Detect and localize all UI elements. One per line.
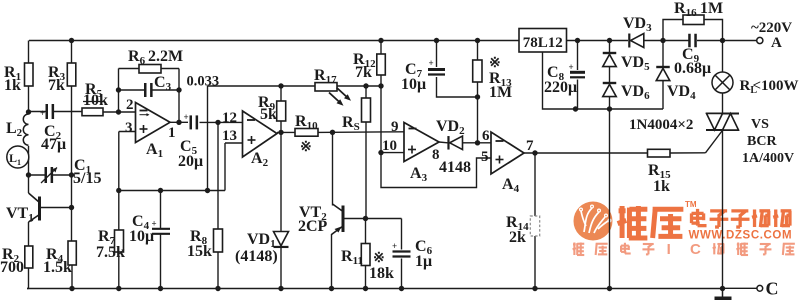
diode VD3 [631,34,644,48]
regulator 78L12 [519,29,567,53]
svg-text:6: 6 [482,128,490,144]
junction VT1 base/R4 [69,205,74,210]
resistor R16 [683,15,704,25]
capacitor C7 [428,68,445,71]
wire A1 feedback left riser [118,69,120,113]
svg-text:7: 7 [526,138,534,154]
svg-text:1k: 1k [653,178,670,195]
wire VD2 to A4 pin6 [463,142,492,144]
wire R4 bottom to ground rail [71,265,73,289]
junction top rail R13 [475,38,480,43]
diode VD6 [603,82,617,84]
svg-text:5: 5 [481,149,489,165]
svg-text:12: 12 [222,110,237,126]
wire C6 bottom to ground [401,259,403,289]
junction R12/R17 [378,83,383,88]
wire R3 column top [71,41,73,64]
junction A2 output/R9/VD1 [278,130,283,135]
wire R1 bottom to mic node [28,86,30,114]
svg-text:18k: 18k [369,265,394,282]
junction C1 right [69,172,74,177]
wire Rs top stub [365,86,367,98]
wire bottom ground rail [27,288,723,290]
wire bias line (half supply) [119,190,225,192]
capacitor C3 [144,83,147,97]
svg-text:+: + [392,241,397,251]
wire R12 column [380,41,382,55]
svg-text:A: A [771,35,782,51]
svg-text:3: 3 [125,120,133,136]
wire R3 bottom through C2 line down to C1 node [71,86,73,175]
svg-text:15k: 15k [187,243,212,260]
svg-text:7k: 7k [355,64,372,81]
resistor R8 [214,229,223,252]
junction ground rail R8 [215,286,220,291]
svg-text:※: ※ [489,56,501,71]
capacitor C8 [570,71,585,74]
svg-text:BCR: BCR [747,134,777,149]
wire A1 output to C5 [170,121,188,123]
junction A4 output/R14 [532,150,537,155]
resistor R6 [139,65,161,74]
svg-text:+: + [40,108,45,118]
wire VT2 base line [344,218,402,220]
transistor VT1 [38,197,41,221]
svg-text:C: C [690,241,701,258]
junction C1 left [26,172,31,177]
junction mic/C2/R1 [26,109,31,114]
wire R10 to A3 pin9 line [318,131,404,134]
wire R15 to triac gate [670,152,706,154]
junction bias 0.033 [205,188,210,193]
op-amp A4 [491,132,524,174]
junction ground rail C4 [158,286,163,291]
junction ground rail VD1 [278,286,283,291]
junction top rail C8 [575,38,580,43]
wire VD5 column top [609,41,611,54]
wire R14 column [534,153,536,216]
svg-text:~220V: ~220V [751,20,792,36]
wire C2 to R5 (crosses R3 column) [54,111,83,113]
diode VD4 [656,66,670,68]
svg-text:1k: 1k [4,77,21,94]
terminal C [757,285,763,291]
op-amp A2 [243,111,278,157]
wire bottom rail to terminal C [723,287,757,289]
wire VT2 emitter to ground [331,234,333,289]
wire C1-node down to R4 top [71,175,73,241]
capacitor C6 [393,250,411,252]
photoresistor light arrows [329,93,341,104]
op-amp A3 [404,123,439,162]
svg-text:20μ: 20μ [178,153,203,170]
resistor R15 [648,149,671,157]
wire VD6 bottom [609,97,611,110]
wire A4 output line to R15 [524,152,648,154]
junction top rail VD3/R16 [660,38,665,43]
wire R5 to A1 pin2 [103,111,136,113]
junction A1 output [176,120,181,125]
resistor R11 [361,244,370,266]
junction R13 bottom/C7 [475,94,480,99]
svg-text:+: + [429,58,434,68]
svg-text:+: + [569,62,574,72]
junction ground rail VT2 emitter [329,286,334,291]
triac VS [706,113,739,115]
svg-text:1: 1 [168,125,176,141]
junction C3 right [176,87,181,92]
wire ground link to VD4 [610,108,664,110]
svg-text:I: I [667,241,671,258]
diode VD1 [274,232,289,246]
junction ground rail C6 [399,286,404,291]
wire 0.033 feedback riser [207,86,209,191]
diode VD5 [603,52,617,54]
ground symbol [722,289,724,298]
wire lamp column [722,41,724,73]
wire VD4 top [662,41,664,68]
transistor VT2 [342,206,345,233]
resistor R14 (dashed) [530,216,539,236]
junction top rail C7 [434,38,439,43]
svg-text:7k: 7k [48,77,65,94]
resistor R3 [67,63,76,86]
wire lamp to triac [722,93,724,114]
svg-text:10: 10 [382,138,397,154]
wire A3 output to VD2 [439,141,448,144]
svg-text:2k: 2k [509,229,526,246]
lamp RL [712,72,733,93]
junction R12 bottom/A3 pin10 [378,150,383,155]
wire mic column through L1 to C1 node [28,146,30,175]
resistor R5 [82,108,103,116]
resistor R4 [68,241,76,265]
svg-text:2: 2 [126,97,134,113]
svg-text:1.5k: 1.5k [43,259,72,276]
wire R7 column [118,191,120,231]
svg-text:5k: 5k [260,106,277,123]
junction top rail R12 [378,38,383,43]
microphone L1 [7,146,29,168]
wire R11 column [365,219,367,244]
resistor R13 [473,60,482,82]
svg-text:(4148): (4148) [235,248,278,265]
junction A2 pin12/R8 [215,120,220,125]
wire A3 pin10 line [381,152,404,154]
svg-text:TM: TM [685,200,697,209]
resistor R7 [115,230,124,252]
wire R16 branch [663,20,683,41]
svg-text:0.033: 0.033 [187,74,220,90]
svg-text:10μ: 10μ [401,76,426,93]
wire VD1 column [280,132,282,231]
terminal A ~220V [757,37,763,43]
wire top +V rail [29,40,519,42]
svg-text:1M: 1M [700,0,723,17]
wire 78L12 ground pin [543,52,576,109]
resistor R10 [295,129,318,137]
junction ground rail R11 [363,286,368,291]
resistor R12 [377,54,386,75]
junction Rs top [363,83,368,88]
svg-text:+: + [184,112,189,122]
resistor R1 [25,63,34,86]
svg-text:10k: 10k [83,92,108,109]
svg-text:※: ※ [373,251,385,266]
svg-text:+: + [152,219,157,229]
wire C5 to A2 pin12 [200,121,243,123]
junction R9 top [278,83,283,88]
svg-text:※: ※ [300,140,312,155]
junction bias C4 [158,188,163,193]
junction VD2 output/A4 pin6 [475,140,480,145]
svg-text:9: 9 [391,119,399,135]
wire A1 pin3 to bias line [119,131,136,133]
resistor R2 [25,246,33,268]
junction ground rail VD6 column [607,286,612,291]
svg-text:78L12: 78L12 [523,35,563,51]
capacitor C5 [190,115,193,129]
watermark dzsc.com logo and text [574,202,613,241]
wire R13 node down to VD2 output node [477,97,479,143]
op-amp A1 [136,103,171,143]
svg-text:<100W: <100W [753,78,799,94]
svg-text:47μ: 47μ [41,136,66,153]
wire C8 ground link to VD5/VD6 column [576,108,610,110]
wire R8 column [217,122,219,229]
svg-text:10μ: 10μ [129,228,154,245]
wire 0.033 top line to R9 node [208,85,282,87]
wire C3 loop [119,89,145,91]
junction top rail VD5 [607,38,612,43]
svg-text:0.68μ: 0.68μ [674,60,711,77]
inductor L2 coil [23,114,28,145]
wire VT1 base line [41,207,72,209]
wire C1 to R4 column [53,174,72,176]
junction ground rail R7 [116,286,121,291]
wire triac to ground rail [722,130,724,289]
junction VT2 base/Rs/R11 [363,216,368,221]
wire R9 top line to R17 [281,85,315,87]
wire C7 bottom link to R13 [437,77,478,97]
diode VD2 [450,136,463,150]
junction ground rail R14 [532,286,537,291]
wire VD5/VD6 ground column [609,109,611,289]
svg-text:1μ: 1μ [415,253,432,270]
wire C1 node to C1 plates [29,174,46,176]
capacitor C2 [46,104,49,119]
wire C8 column [577,41,579,71]
wire Rs bottom to VT2 base node (crosses pin9 line) [365,122,367,219]
wire bias riser to A2 pin13 [224,143,226,191]
junction ground rail triac [720,286,725,291]
wire VT2 collector riser [332,132,334,205]
svg-text:7.5k: 7.5k [96,244,125,261]
wire A2 output line [277,131,295,133]
wire R1 column [28,41,30,64]
variable capacitor C1 [45,167,48,183]
svg-text:VS: VS [751,117,769,132]
svg-text:1M: 1M [489,84,512,101]
capacitor C4 [152,228,170,230]
junction C3 left [116,87,121,92]
wire VD5 to VD6 [609,67,611,84]
svg-text:700: 700 [0,259,24,276]
svg-text:5/15: 5/15 [73,170,101,187]
wire R2 bottom to ground rail [28,268,30,289]
wire C4 column [160,191,162,229]
wire pin10/pin5 tie loop [381,153,491,188]
wire VT1 collector riser [28,175,30,193]
wire VT2 base to C6 [401,219,403,250]
svg-text:2.2M: 2.2M [148,48,183,65]
svg-text:1A/400V: 1A/400V [742,151,794,166]
junction top rail R1/R3 [69,38,74,43]
capacitor C9 [688,34,691,48]
photoresistor Rs [362,98,371,122]
wire R6 loop [119,68,140,70]
wire R17 to Rs/R12 node [337,85,381,87]
junction C8 bottom [573,106,578,111]
wire mic node to C2 [29,111,47,113]
svg-text:220μ: 220μ [544,79,577,96]
svg-text:13: 13 [222,128,237,144]
svg-text:2CP: 2CP [298,218,328,235]
junction top rail lamp/R16 [720,38,725,43]
wire R9 column [280,86,282,101]
svg-text:1N4004×2: 1N4004×2 [629,117,693,133]
wire C7 column [436,41,438,68]
junction VD6/ground link [607,106,612,111]
junction ground rail R4 [69,286,74,291]
wire VT1 emitter down to R2 [28,222,30,246]
svg-text:4148: 4148 [439,159,471,176]
svg-text:C: C [766,279,779,299]
resistor R9 [277,101,286,121]
junction VT2 collector/pin9 line [330,130,335,135]
svg-text:WWW.DZSC.COM: WWW.DZSC.COM [689,230,793,242]
wire A1 feedback right riser [178,69,180,123]
resistor R17 [315,83,337,91]
junction A1 pin2 [116,109,121,114]
wire R13 column [477,41,479,61]
junction bias R7 [116,188,121,193]
